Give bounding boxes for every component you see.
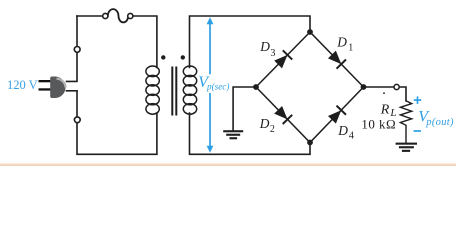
svg-text:120 V: 120 V bbox=[7, 78, 38, 92]
svg-text:D: D bbox=[259, 116, 270, 131]
svg-text:p(sec): p(sec) bbox=[206, 81, 229, 91]
svg-text:1: 1 bbox=[348, 43, 353, 54]
svg-text:D: D bbox=[336, 34, 347, 49]
svg-text:p(out): p(out) bbox=[425, 117, 454, 128]
svg-text:D: D bbox=[337, 123, 348, 138]
svg-text:3: 3 bbox=[270, 48, 275, 59]
svg-text:D: D bbox=[259, 39, 270, 54]
svg-text:4: 4 bbox=[349, 131, 354, 142]
svg-text:2: 2 bbox=[270, 124, 275, 135]
svg-text:R: R bbox=[380, 103, 390, 118]
svg-text:10 kΩ: 10 kΩ bbox=[361, 117, 396, 132]
